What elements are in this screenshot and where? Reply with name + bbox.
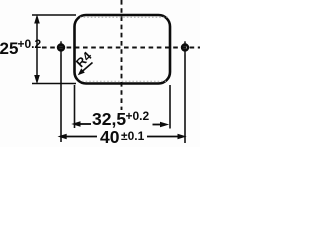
R4 leader arrow <box>78 63 93 76</box>
svg-text:32,5: 32,5 <box>92 109 126 129</box>
extension line below cutout right edge <box>169 85 171 129</box>
25 dimension line <box>34 14 40 84</box>
svg-text:25: 25 <box>0 39 18 58</box>
horizontal centerline <box>42 47 200 49</box>
40 dimension line with arrows <box>58 134 187 139</box>
svg-text:+0.2: +0.2 <box>18 37 42 51</box>
panel cutout outline <box>75 15 171 84</box>
dimension text 25 +0.2 <box>0 37 42 58</box>
svg-text:+0.2: +0.2 <box>126 109 150 123</box>
extension line below left hole <box>60 55 62 143</box>
top extension line for 25 dim <box>32 14 76 16</box>
vertical centerline <box>121 0 123 110</box>
dimension text 32,5 +0.2 <box>92 109 150 129</box>
right mounting hole <box>182 41 188 54</box>
extension line below right hole <box>184 55 186 144</box>
32,5 dimension line with arrows <box>71 121 169 127</box>
svg-text:R4: R4 <box>73 49 94 70</box>
left mounting hole <box>58 41 64 54</box>
bottom extension line for 25 dim <box>32 83 76 85</box>
extension line below cutout left edge <box>74 85 76 128</box>
svg-text:±0.1: ±0.1 <box>121 129 145 143</box>
faint scan artifact line <box>80 16 168 18</box>
dimension text 40 +-0.1 <box>100 127 145 147</box>
svg-text:40: 40 <box>100 127 120 147</box>
